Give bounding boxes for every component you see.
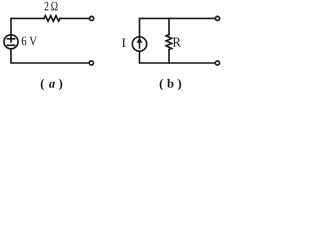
voltage source minus sign	[7, 44, 14, 46]
terminal: (b) bottom right open circle	[215, 61, 219, 65]
current source I circle	[132, 37, 146, 51]
label 6 V	[22, 37, 37, 46]
terminal: (b) top right open circle	[215, 16, 219, 20]
wire: circuit (a) top-left corner and left part of top wire	[11, 18, 44, 35]
label R	[173, 38, 181, 47]
resistor R vertical zigzag	[166, 35, 172, 50]
label (b) paren L	[160, 79, 163, 90]
wire: (a) left branch lower segment and bottom wire	[11, 49, 89, 63]
label (a) paren R	[59, 79, 62, 90]
label I	[122, 38, 125, 47]
label (a) paren L	[41, 79, 44, 90]
wire: circuit (b) left branch top corner and top wire	[140, 18, 216, 36]
voltage source plus sign	[7, 36, 14, 43]
current source arrow	[137, 37, 143, 49]
wire: (a) top wire right segment to terminal	[60, 17, 89, 19]
voltage source 6V circle	[4, 35, 18, 49]
resistor 2Ω zigzag	[44, 16, 60, 22]
label (b) letter b	[167, 79, 173, 88]
label (b) paren R	[178, 79, 181, 90]
terminal: (a) top right open circle	[90, 16, 94, 20]
label 2 Ohm omega	[51, 2, 57, 11]
wire: (b) middle branch lower segment	[168, 50, 170, 63]
label (a) letter a	[49, 82, 55, 88]
wire: (b) middle branch upper segment	[168, 18, 170, 34]
label 2 Ohm digit 2	[45, 2, 49, 11]
terminal: (a) bottom right open circle	[89, 61, 93, 65]
wire: (b) left branch lower segment and bottom wire	[140, 51, 216, 63]
